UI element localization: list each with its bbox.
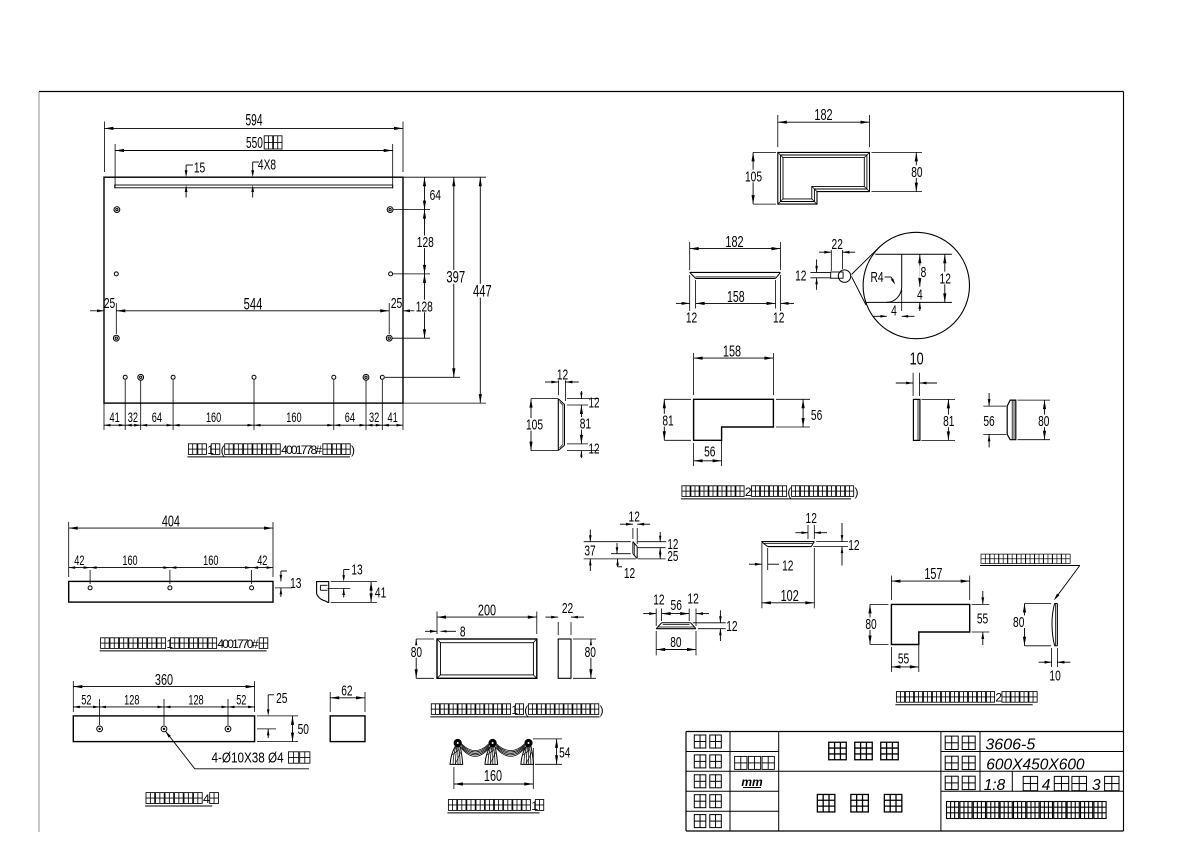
dim 81 L bbox=[661, 399, 691, 440]
part 404 molding bar bbox=[69, 581, 273, 602]
dim 158 strip and 12 bevels bbox=[676, 275, 794, 326]
svg-text:594: 594 bbox=[246, 110, 263, 129]
svg-text:64: 64 bbox=[430, 186, 441, 204]
part carved swag board bbox=[450, 739, 533, 765]
svg-text:81: 81 bbox=[662, 411, 673, 429]
svg-text:4: 4 bbox=[203, 792, 210, 806]
bottom-board holes row1 bbox=[114, 207, 430, 213]
dim 13 J profile bbox=[342, 560, 362, 597]
svg-text:80: 80 bbox=[411, 643, 422, 661]
svg-text:4: 4 bbox=[917, 286, 923, 304]
svg-text:182: 182 bbox=[725, 233, 743, 251]
value 3606-5 bbox=[985, 736, 1035, 753]
label bottom-board name bbox=[187, 443, 355, 457]
svg-text:12: 12 bbox=[782, 556, 793, 574]
svg-text:128: 128 bbox=[417, 233, 434, 251]
svg-text:80: 80 bbox=[670, 633, 681, 651]
dim 42-160-160-42 bbox=[69, 555, 273, 584]
svg-text:): ) bbox=[351, 443, 355, 457]
svg-text:128: 128 bbox=[188, 694, 203, 708]
dim 182 top-right bbox=[778, 106, 870, 147]
svg-text:182: 182 bbox=[814, 106, 832, 124]
company name bbox=[947, 802, 1107, 819]
value 600X450X600 bbox=[986, 757, 1085, 774]
dim 12 tilted mid bbox=[616, 543, 619, 554]
svg-text:160: 160 bbox=[484, 767, 502, 785]
svg-text:32: 32 bbox=[128, 412, 138, 426]
dim 80 157piece bbox=[864, 604, 888, 644]
svg-text:25: 25 bbox=[104, 294, 115, 312]
svg-text:12: 12 bbox=[806, 509, 817, 527]
svg-text:3: 3 bbox=[1092, 777, 1101, 794]
svg-text:128: 128 bbox=[416, 297, 433, 315]
svg-text:81: 81 bbox=[580, 415, 591, 433]
svg-text:102: 102 bbox=[781, 587, 799, 605]
part bottom-board outline bbox=[104, 177, 403, 403]
svg-text:1:8: 1:8 bbox=[984, 777, 1006, 794]
hole callout 4-o10X38 o4 bbox=[166, 731, 310, 769]
part bevel piece 56x80 bbox=[1007, 400, 1016, 440]
detail dim 4 horizontal bbox=[874, 301, 915, 319]
dim 105 bbox=[741, 152, 776, 204]
svg-text:80: 80 bbox=[865, 615, 876, 633]
label 360 rail name bbox=[145, 792, 218, 806]
part bottom-board slot bbox=[115, 185, 393, 188]
svg-text:105: 105 bbox=[526, 416, 543, 434]
dim right 447 bbox=[403, 177, 493, 403]
cell chuangtougui title bbox=[829, 742, 899, 760]
cell shigongtu title bbox=[817, 794, 902, 812]
svg-text:160: 160 bbox=[206, 412, 221, 426]
value sheet count bbox=[1023, 776, 1119, 794]
svg-text:12: 12 bbox=[557, 365, 568, 383]
svg-text:8: 8 bbox=[921, 263, 927, 281]
value 1:8 bbox=[984, 777, 1006, 794]
dim 80 top-right bbox=[872, 152, 924, 191]
dim 158 L bbox=[694, 342, 774, 395]
svg-text:12: 12 bbox=[589, 395, 600, 411]
part veneer strip bbox=[1052, 604, 1057, 646]
svg-text:12: 12 bbox=[940, 269, 951, 287]
svg-text:12: 12 bbox=[624, 564, 635, 582]
dim 22 cross-section bbox=[819, 235, 855, 271]
detail circle bbox=[863, 232, 969, 338]
part 102 strip bbox=[761, 542, 814, 547]
dim 25 rail bbox=[257, 689, 287, 738]
svg-text:55: 55 bbox=[898, 649, 909, 667]
cell bili bbox=[945, 776, 975, 789]
svg-text:25: 25 bbox=[276, 689, 287, 707]
dim 62 bbox=[330, 682, 365, 712]
dim 80 bevel piece bbox=[1018, 400, 1051, 440]
dim 404 bbox=[69, 512, 273, 577]
svg-text:25: 25 bbox=[667, 548, 678, 564]
svg-text:8: 8 bbox=[460, 623, 466, 641]
cell mm unit bbox=[741, 775, 763, 789]
svg-text:56: 56 bbox=[811, 406, 822, 424]
svg-text:42: 42 bbox=[257, 555, 267, 569]
svg-text:52: 52 bbox=[81, 694, 91, 708]
svg-text:550: 550 bbox=[246, 134, 263, 152]
dim 182 strip bbox=[690, 233, 781, 270]
svg-text:4: 4 bbox=[891, 301, 897, 319]
detail dim 12 bbox=[938, 254, 952, 302]
dim 13 on 404 bar bbox=[275, 571, 301, 597]
dim 12 tilted top bbox=[620, 508, 650, 544]
svg-text:160: 160 bbox=[122, 555, 137, 569]
text 10 below detail bbox=[910, 350, 924, 370]
404 bar holes bbox=[88, 586, 254, 590]
svg-text:4001770#: 4001770# bbox=[217, 637, 258, 651]
dim 81 and 12s strip right bbox=[567, 391, 600, 458]
part flat trapezoid 80 bbox=[656, 623, 696, 629]
svg-text:41: 41 bbox=[375, 583, 386, 601]
svg-text:mm: mm bbox=[741, 775, 763, 789]
dim 22 panel bbox=[545, 599, 584, 635]
dim 12-25 tilted right bbox=[659, 532, 678, 564]
dim 160 swag bbox=[454, 748, 533, 789]
svg-text:80: 80 bbox=[1013, 613, 1024, 631]
dim 544 with 25s bbox=[90, 294, 417, 334]
svg-text:54: 54 bbox=[559, 744, 570, 762]
svg-text:10: 10 bbox=[1049, 667, 1060, 685]
detail dim 8 bbox=[918, 254, 927, 287]
part frame-board L outline bbox=[694, 399, 774, 440]
svg-text:32: 32 bbox=[369, 412, 379, 426]
dim 56 L bottom bbox=[694, 429, 722, 466]
cell zhitu bbox=[694, 755, 721, 768]
label frame-board L bbox=[681, 485, 859, 499]
dim right 397 bbox=[445, 177, 467, 377]
dim 12 tilted bottom leader bbox=[616, 559, 635, 581]
cell sheji bbox=[694, 735, 721, 748]
svg-text:80: 80 bbox=[585, 643, 596, 661]
svg-text:13: 13 bbox=[351, 560, 362, 578]
note router text bbox=[980, 554, 1080, 565]
svg-text:128: 128 bbox=[124, 694, 139, 708]
svg-text:(: ( bbox=[221, 443, 225, 457]
part 360 rail bar bbox=[73, 716, 254, 742]
part top-right L-plate outline bbox=[778, 152, 870, 204]
label 157 piece name bbox=[895, 691, 1037, 705]
dim right 64 bbox=[403, 177, 486, 209]
svg-text:42: 42 bbox=[74, 555, 84, 569]
svg-text:10: 10 bbox=[910, 350, 924, 370]
detail balloon leader bbox=[852, 247, 880, 305]
svg-text:41: 41 bbox=[109, 412, 119, 426]
dim 55 bottom 157piece bbox=[891, 634, 918, 672]
part edge strip 12x105 bbox=[558, 399, 564, 451]
part thin bar 10x81 bbox=[913, 399, 920, 440]
svg-text:600X450X600: 600X450X600 bbox=[986, 757, 1085, 774]
svg-text:12: 12 bbox=[629, 508, 640, 526]
dim 80 trapezoid bbox=[656, 631, 696, 655]
dim 157 bbox=[891, 565, 969, 600]
label swag board name bbox=[447, 799, 543, 813]
svg-text:2: 2 bbox=[995, 691, 1002, 705]
svg-text:12: 12 bbox=[795, 267, 806, 285]
svg-text:12: 12 bbox=[686, 308, 697, 326]
svg-text:62: 62 bbox=[341, 682, 352, 700]
label 15 slot depth bbox=[185, 158, 205, 197]
svg-text:3606-5: 3606-5 bbox=[985, 736, 1035, 753]
svg-text:56: 56 bbox=[671, 596, 682, 614]
svg-text:4: 4 bbox=[1042, 777, 1051, 794]
svg-text:R4: R4 bbox=[870, 268, 883, 286]
dim 105 strip bbox=[522, 399, 558, 451]
svg-text:13: 13 bbox=[290, 574, 301, 592]
dim bottom row 41-32-64-160-160-64-32-41 bbox=[104, 380, 403, 430]
dim 55 right 157piece bbox=[972, 591, 990, 645]
cell guige bbox=[945, 756, 975, 769]
svg-text:404: 404 bbox=[162, 512, 180, 530]
dim 12 strip left bbox=[749, 548, 793, 574]
svg-text:22: 22 bbox=[562, 599, 573, 617]
svg-text:81: 81 bbox=[943, 412, 954, 430]
svg-text:360: 360 bbox=[155, 671, 173, 689]
svg-text:): ) bbox=[600, 703, 604, 717]
title block grid bbox=[686, 732, 1124, 832]
dim right 128 upper bbox=[415, 210, 435, 274]
svg-text:55: 55 bbox=[977, 609, 988, 627]
dim 12-56-12 trapezoid bbox=[643, 590, 709, 626]
svg-text:12: 12 bbox=[687, 590, 698, 608]
svg-text:15: 15 bbox=[194, 158, 205, 176]
360 bar holes bbox=[97, 726, 231, 732]
label 200 panel name bbox=[430, 703, 603, 717]
svg-text:4001778#: 4001778# bbox=[281, 443, 322, 457]
svg-text:158: 158 bbox=[727, 288, 745, 306]
dim 12 trapezoid right bbox=[693, 610, 738, 641]
bottom-board holes row2 bbox=[114, 272, 430, 276]
bottom-board holes bottom row bbox=[123, 374, 460, 380]
dim 12 cross-section bbox=[795, 260, 818, 290]
dim 10 bar bbox=[896, 373, 937, 396]
svg-text:544: 544 bbox=[244, 294, 263, 313]
dim 360 bbox=[73, 671, 254, 712]
svg-text:56: 56 bbox=[704, 443, 715, 461]
svg-text:37: 37 bbox=[584, 541, 595, 559]
svg-text:): ) bbox=[855, 485, 859, 499]
tilted strip ext lines bbox=[584, 542, 667, 559]
dim 80 veneer bbox=[1012, 604, 1051, 646]
dim 52-128-128-52 bbox=[73, 694, 254, 725]
dim 12 strip top bbox=[545, 365, 579, 401]
cell daihao bbox=[945, 736, 975, 749]
svg-text:2: 2 bbox=[745, 485, 752, 499]
svg-text:12: 12 bbox=[653, 590, 664, 608]
svg-text:160: 160 bbox=[203, 555, 218, 569]
cell danwei bbox=[694, 775, 721, 788]
cell shenpi bbox=[694, 815, 721, 828]
dim 12 strip far right bbox=[813, 523, 859, 566]
dim 81 bar bbox=[922, 399, 956, 440]
svg-text:56: 56 bbox=[983, 412, 994, 430]
dim 200 bbox=[437, 601, 537, 634]
svg-text:41: 41 bbox=[387, 412, 397, 426]
svg-text:105: 105 bbox=[745, 167, 762, 185]
detail profile lines bbox=[866, 254, 952, 311]
dim 54 swag bbox=[533, 739, 572, 764]
svg-text:158: 158 bbox=[723, 342, 741, 360]
dim 56 L right bbox=[776, 399, 824, 427]
dim 594 bbox=[104, 110, 403, 172]
svg-text:80: 80 bbox=[911, 163, 922, 181]
dim 56 bevel piece bbox=[982, 393, 1006, 448]
svg-text:12: 12 bbox=[848, 536, 859, 554]
dim 50 rail bbox=[257, 716, 309, 742]
svg-text:12: 12 bbox=[726, 617, 737, 635]
svg-text:397: 397 bbox=[446, 267, 465, 286]
svg-text:80: 80 bbox=[1038, 412, 1049, 430]
svg-text:25: 25 bbox=[391, 294, 402, 312]
svg-text:160: 160 bbox=[286, 412, 301, 426]
dim 41 J profile bbox=[331, 582, 387, 603]
bottom-board holes row3 bbox=[113, 335, 430, 341]
part tilted strip bbox=[633, 542, 637, 559]
detail label R4 bbox=[870, 268, 895, 286]
svg-text:12: 12 bbox=[589, 441, 600, 457]
part molding strip 182 bbox=[690, 272, 781, 278]
part 157 L piece bbox=[891, 604, 969, 644]
part 22 panel edge bbox=[558, 639, 571, 678]
dim 12 strip top right bbox=[795, 509, 827, 539]
cell xiaodui bbox=[694, 795, 721, 808]
dim right 128 lower bbox=[414, 274, 434, 338]
svg-text:64: 64 bbox=[152, 412, 163, 426]
dim 550 fenzhong bbox=[115, 134, 393, 189]
part molding cross-section small bbox=[810, 270, 850, 282]
svg-text:52: 52 bbox=[236, 694, 246, 708]
label 4X8 slot bbox=[251, 155, 276, 197]
svg-text:447: 447 bbox=[473, 281, 492, 300]
dim 10 veneer bbox=[1039, 648, 1071, 684]
label 404 bar name bbox=[100, 637, 268, 651]
note leader arrow bbox=[1054, 566, 1080, 601]
part 62 square bbox=[330, 716, 365, 742]
dim 37 tilted bbox=[583, 530, 597, 572]
dim 80 panel right bbox=[573, 639, 597, 678]
part 200 panel bbox=[437, 639, 537, 678]
svg-text:22: 22 bbox=[832, 235, 843, 253]
detail dim 4 vertical bbox=[916, 286, 924, 311]
part J profile bbox=[317, 582, 351, 603]
svg-text:(: ( bbox=[787, 485, 791, 499]
svg-text:4X8: 4X8 bbox=[258, 155, 276, 173]
svg-text:157: 157 bbox=[924, 565, 942, 583]
dim 80 panel left bbox=[410, 639, 435, 678]
svg-text:12: 12 bbox=[773, 308, 784, 326]
svg-text:50: 50 bbox=[298, 720, 309, 738]
dim 102 bbox=[762, 543, 814, 608]
svg-text:64: 64 bbox=[345, 412, 356, 426]
svg-text:4-Ø10X38 Ø4: 4-Ø10X38 Ø4 bbox=[212, 749, 285, 766]
svg-text:(: ( bbox=[524, 703, 528, 717]
cell tangwenqing bbox=[735, 756, 775, 769]
dim 8 panel bbox=[425, 623, 466, 641]
svg-text:200: 200 bbox=[478, 601, 496, 619]
